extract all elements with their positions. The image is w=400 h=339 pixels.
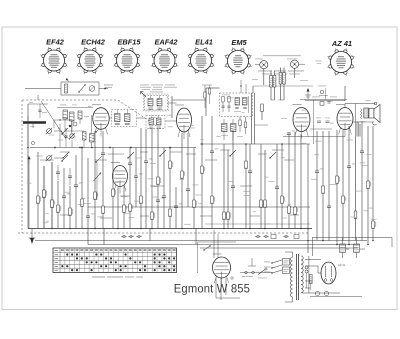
- svg-text:AZ 41: AZ 41: [338, 263, 346, 267]
- svg-text:ECH42: ECH42: [81, 38, 106, 47]
- svg-text:EF42: EF42: [46, 38, 65, 47]
- svg-text:EBF15: EBF15: [117, 38, 141, 47]
- svg-text:80: 80: [346, 247, 350, 251]
- svg-text:Egmont W 855: Egmont W 855: [174, 281, 251, 296]
- svg-text:EL41: EL41: [195, 38, 213, 47]
- svg-text:EAF42: EAF42: [154, 38, 178, 47]
- svg-text:100: 100: [360, 247, 365, 251]
- svg-text:AZ 41: AZ 41: [331, 39, 352, 48]
- svg-text:EM5: EM5: [231, 38, 247, 47]
